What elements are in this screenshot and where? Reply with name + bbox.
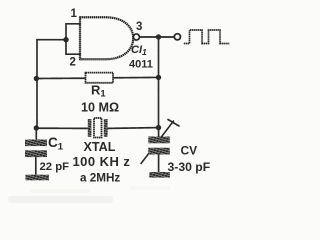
wire: CV bottom stub to ground [158, 155, 160, 173]
wire: pin 1 stub [66, 23, 80, 25]
wire: XTAL to CV junction [108, 127, 159, 130]
svg-text:CV: CV [181, 144, 198, 158]
crystal XTAL body [94, 118, 102, 138]
wire: bottom left to XTAL [37, 127, 88, 129]
wire: pin 2 stub [66, 53, 80, 55]
wire: C1 bottom stub to ground [35, 157, 37, 175]
node: R1 left rail junction [34, 76, 39, 81]
trimmer CV adjustment arrow [141, 120, 179, 164]
wire: output rail vertical [158, 37, 160, 128]
faint scan smudge bottom [8, 186, 170, 203]
svg-text:2: 2 [70, 57, 76, 69]
svg-text:1: 1 [71, 8, 78, 20]
crystal XTAL right plate [104, 119, 108, 137]
node: CV bottom-wire junction [156, 125, 161, 130]
crystal XTAL left plate [88, 119, 92, 137]
capacitor C1 bottom plate [25, 150, 47, 157]
square wave output symbol [184, 30, 230, 44]
svg-text:4011: 4011 [129, 59, 153, 71]
wire: CV top stub [158, 128, 160, 137]
node: R1 right rail junction [156, 75, 161, 80]
svg-text:3-30 pF: 3-30 pF [168, 160, 211, 174]
node: gate input junction [63, 37, 68, 42]
svg-text:XTAL: XTAL [84, 140, 116, 154]
ground under CV [149, 172, 170, 178]
ground under C1 [26, 175, 50, 181]
wire: input feedback to gate inputs [37, 40, 66, 128]
wire: R1 left [36, 77, 85, 79]
capacitor C1 top plate [25, 140, 47, 147]
NAND gate CI1 4011 body [80, 17, 133, 59]
svg-text:a 2MHz: a 2MHz [80, 172, 120, 185]
output terminal circle [174, 34, 180, 40]
trimmer capacitor CV bottom plate [148, 148, 170, 155]
wire: output pin 3 to junction [140, 36, 174, 38]
svg-text:22 pF: 22 pF [40, 161, 70, 173]
resistor R1 box [86, 73, 114, 83]
wire: C1 top stub [35, 128, 37, 140]
wire: R1 right [113, 76, 159, 78]
svg-text:10 MΩ: 10 MΩ [81, 101, 119, 115]
svg-text:100 KH z: 100 KH z [73, 154, 131, 169]
trimmer capacitor CV top plate [148, 137, 170, 144]
svg-text:3: 3 [136, 21, 142, 33]
wire: gate input bracket vertical [65, 24, 67, 54]
node: output junction pin3 rail [156, 34, 161, 39]
node: C1 bottom-wire junction [34, 125, 39, 130]
NAND gate output bubble pin 3 [133, 34, 139, 40]
